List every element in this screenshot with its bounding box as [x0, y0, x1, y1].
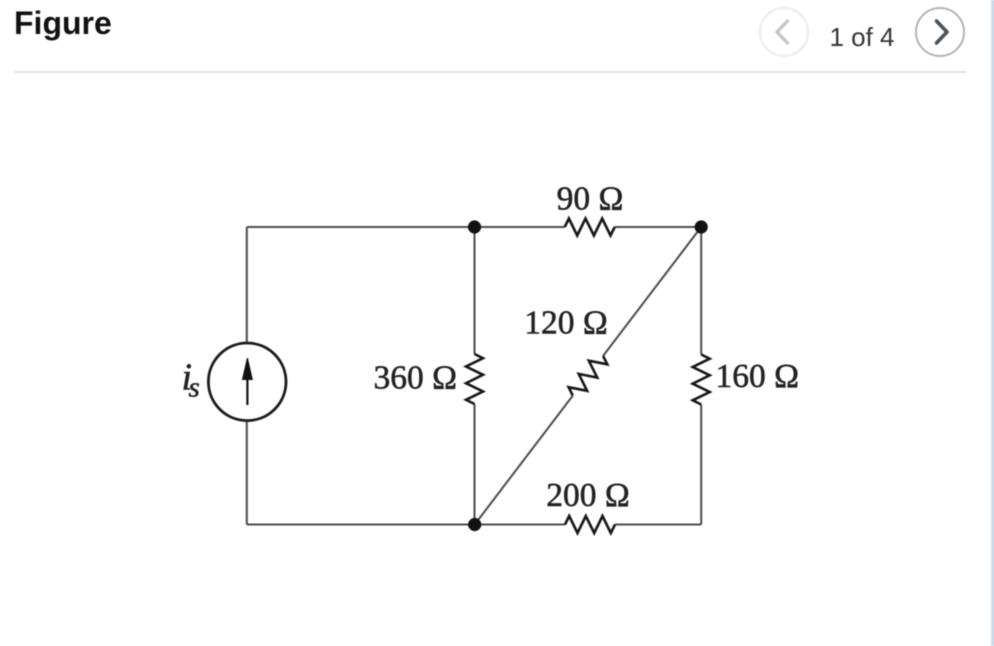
resistor 120 ohm (diagonal) — [569, 356, 608, 396]
resistor 200 ohm (bottom) — [565, 516, 615, 533]
wire: top rail left segment — [247, 226, 565, 228]
value label 120 Ω — [524, 305, 608, 342]
wire: diagonal upper segment — [603, 227, 701, 356]
wire: bottom rail left segment — [247, 523, 565, 525]
svg-text:360 Ω: 360 Ω — [373, 360, 457, 397]
wire: right branch lower segment — [700, 405, 702, 525]
wire: right branch upper segment — [700, 227, 702, 355]
value label 90 Ω — [557, 181, 624, 218]
resistor 360 ohm (middle branch) — [466, 354, 483, 404]
node junction: top middle — [468, 220, 481, 233]
label i_s — [182, 357, 200, 404]
resistor 90 ohm (top) — [565, 219, 615, 236]
svg-text:200 Ω: 200 Ω — [546, 477, 630, 514]
current source is — [208, 343, 286, 421]
value label 200 Ω — [546, 477, 630, 514]
wire: diagonal lower segment — [475, 396, 573, 525]
wire: bottom rail right segment — [615, 523, 701, 525]
wire: left branch (source branch) — [246, 227, 248, 525]
svg-text:120 Ω: 120 Ω — [524, 305, 608, 342]
value label 360 Ω — [373, 360, 457, 397]
wire: top rail right segment — [615, 226, 702, 228]
svg-text:s: s — [189, 371, 200, 403]
svg-text:90 Ω: 90 Ω — [557, 181, 624, 218]
resistor 160 ohm (right branch) — [693, 355, 710, 405]
wire: middle branch lower segment — [473, 404, 475, 525]
node junction: top right — [695, 220, 708, 233]
node junction: bottom middle — [468, 518, 481, 531]
svg-text:160 Ω: 160 Ω — [716, 358, 800, 395]
value label 160 Ω — [716, 358, 800, 395]
wire: middle branch upper segment — [473, 227, 475, 354]
